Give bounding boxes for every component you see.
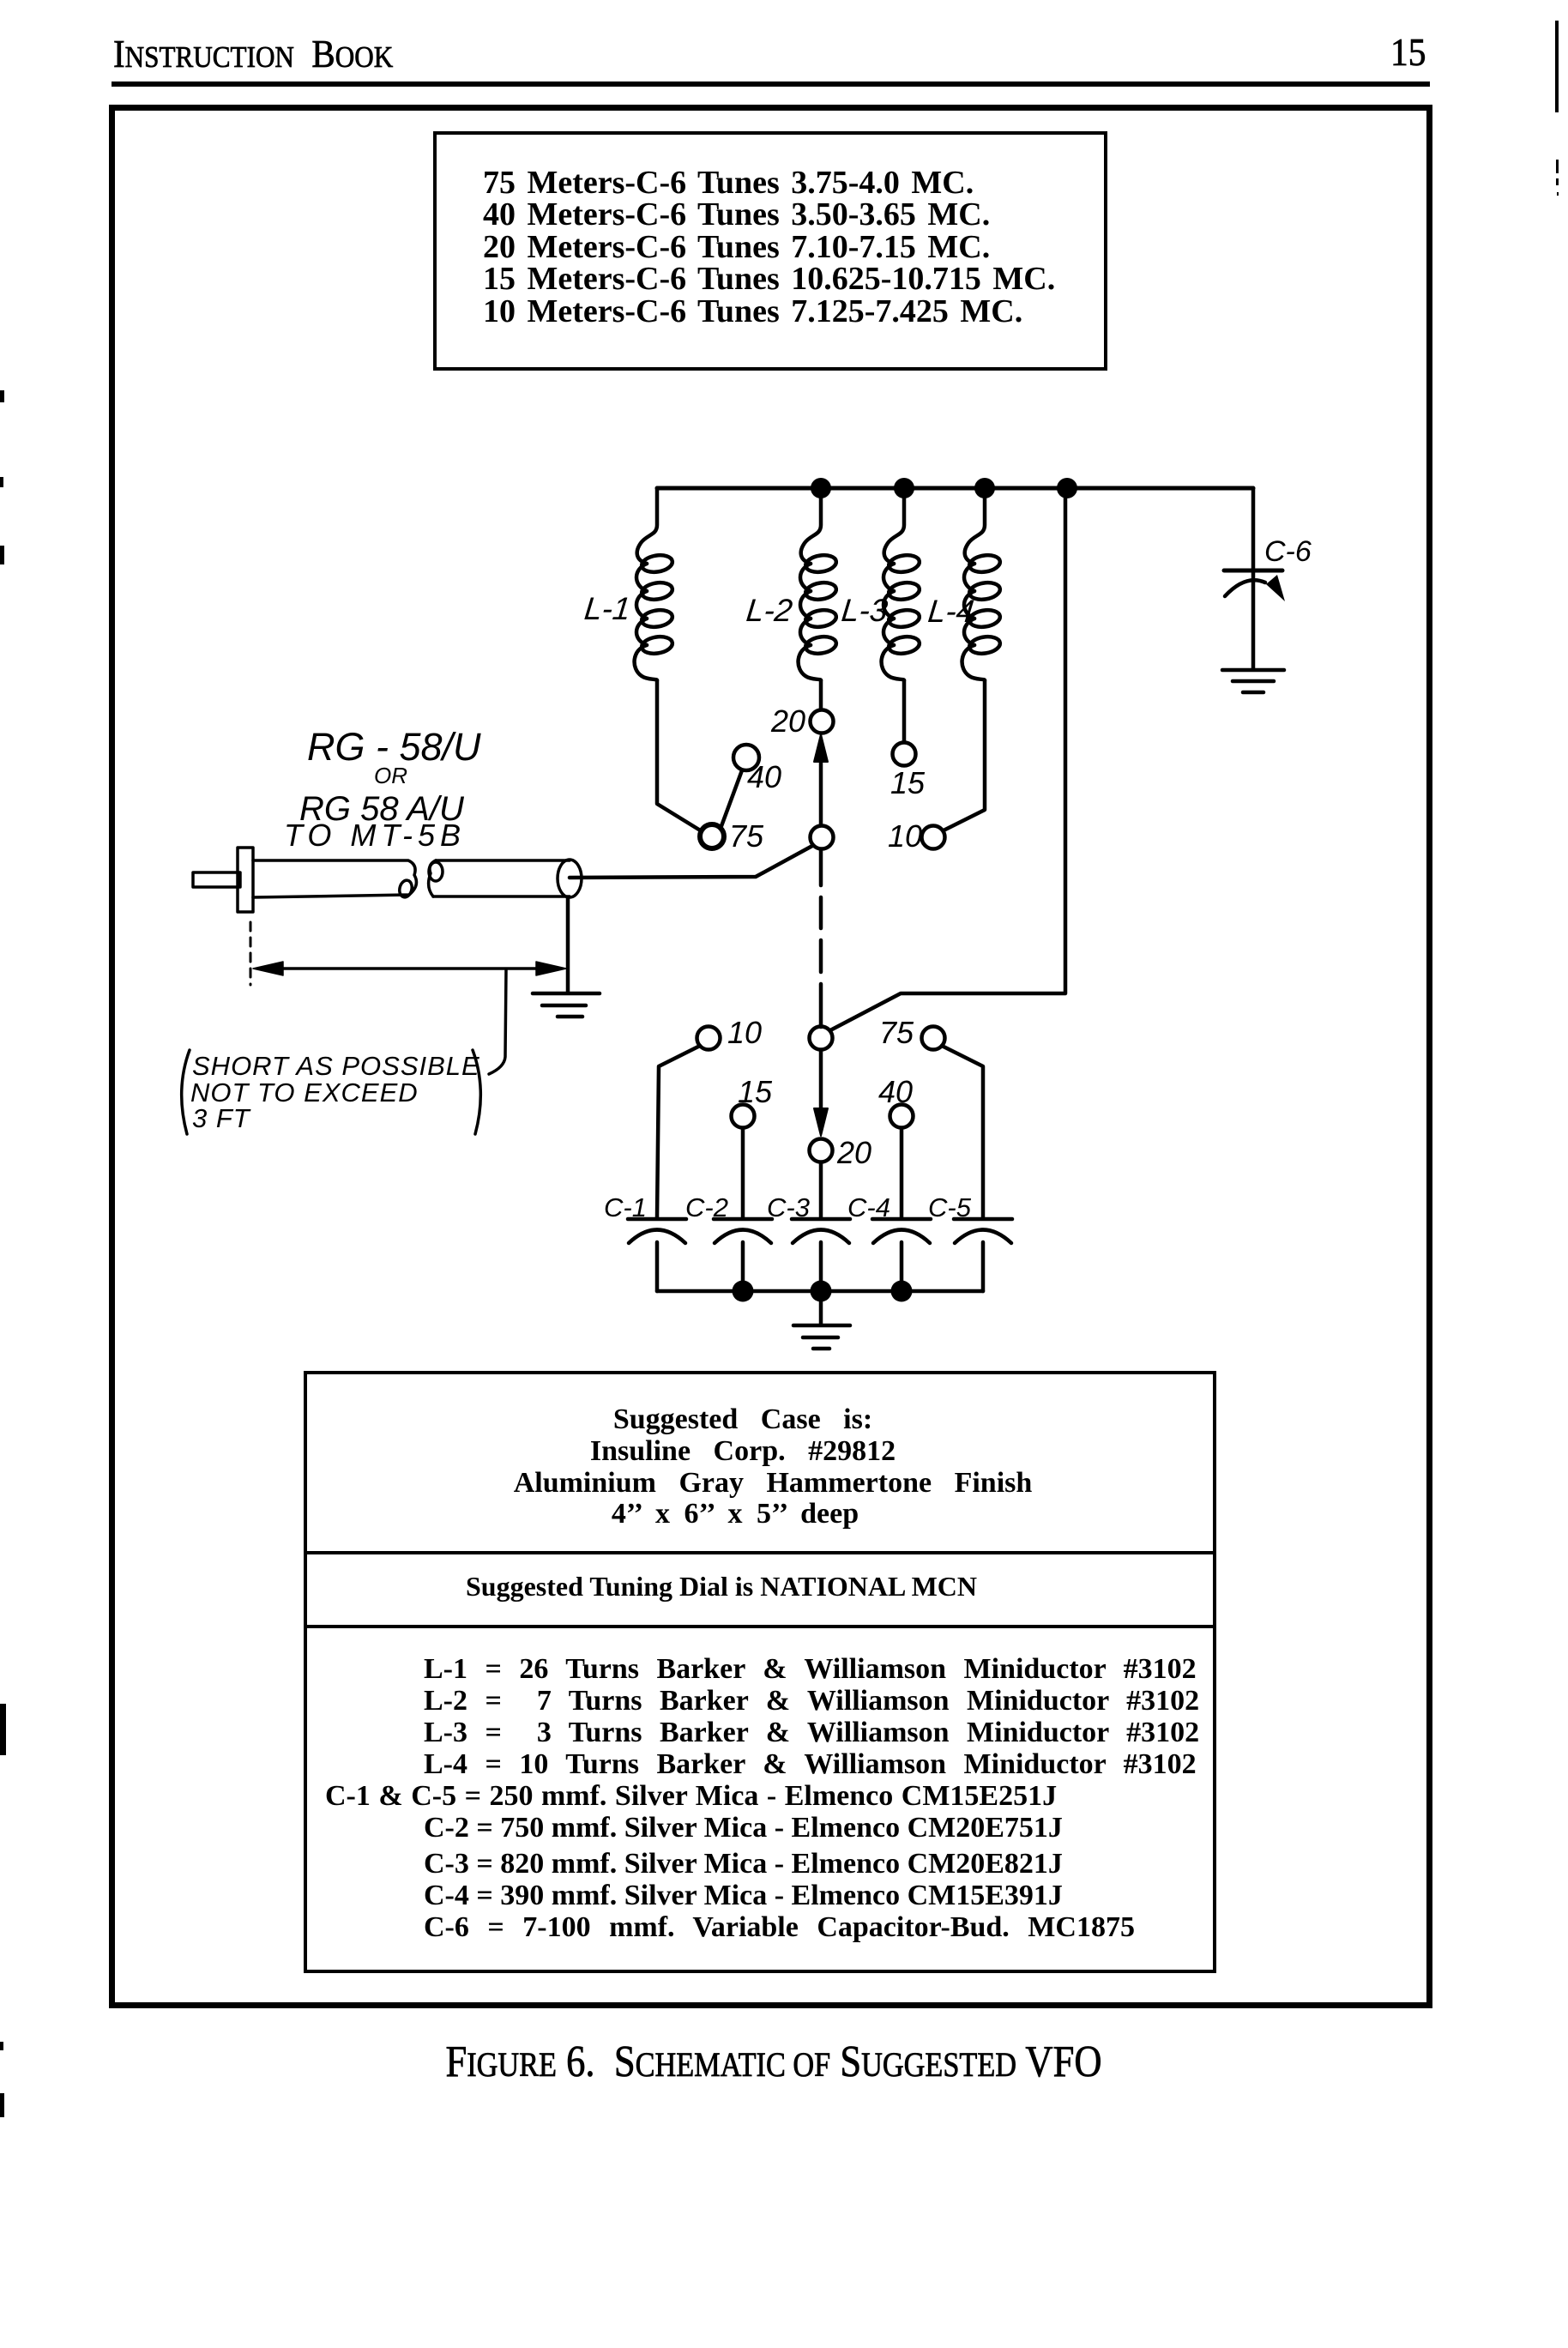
inductor L-1 [635, 488, 674, 680]
inductor L-3 [882, 488, 921, 680]
switch S1b contact 40 [890, 1105, 914, 1128]
svg-text:C-5: C-5 [928, 1192, 972, 1222]
capacitor C-4 [872, 1219, 931, 1291]
wire L-4 bottom to 10 contact [944, 680, 985, 830]
svg-text:3 FT: 3 FT [192, 1103, 251, 1133]
ground below capacitor bank [793, 1291, 850, 1349]
svg-text:10: 10 [727, 1015, 762, 1050]
svg-text:40: 40 [747, 759, 781, 794]
svg-text:75: 75 [729, 818, 764, 854]
node junction dot C-4 [891, 1281, 913, 1302]
svg-text:75: 75 [879, 1015, 914, 1050]
switch S1b common pole [810, 1027, 833, 1050]
wire dashed rotor link [819, 849, 823, 885]
switch S1a contact 10 [922, 826, 945, 849]
capacitor C-1 [628, 1219, 686, 1291]
coax connector pin [193, 872, 240, 887]
switch S1a contact 15 [893, 743, 916, 766]
ground below C-6 [1222, 670, 1284, 692]
coax body section 2 [429, 860, 582, 897]
note text short as possible [190, 1051, 480, 1133]
wire 20 contact to C-3 [819, 1162, 823, 1217]
capacitor C-6 variable [1224, 488, 1285, 668]
inductor L-4 [962, 488, 1002, 680]
svg-text:C-6: C-6 [1264, 535, 1312, 568]
switch S1b wiper arrow [819, 1050, 823, 1115]
switch S1a contact 40 [733, 745, 759, 770]
wire bottom bus [657, 1289, 983, 1294]
header: INSTRUCTION BOOK [113, 34, 393, 74]
wire L-3 bottom to 15 contact [902, 680, 907, 742]
note parentheses [182, 1050, 481, 1134]
node junction dot C-2 [733, 1281, 754, 1302]
capacitor C-5 [954, 1219, 1012, 1291]
wire S1b wiper to right bus [830, 488, 1065, 1030]
svg-text:15: 15 [890, 765, 926, 800]
switch S1a wiper arrow [819, 743, 823, 825]
svg-text:C-4: C-4 [847, 1192, 890, 1222]
svg-text:L-3: L-3 [840, 592, 890, 628]
svg-text:L-2: L-2 [745, 592, 794, 628]
node junction dot above L-2 [811, 478, 831, 498]
switch S1a contact 20 [811, 710, 834, 733]
wire 15 contact to C-2 [741, 1128, 745, 1217]
svg-text:OR: OR [374, 763, 407, 788]
node junction dot right bus [1057, 478, 1077, 498]
wire top bus [657, 486, 1253, 491]
ground below coax [533, 993, 600, 1017]
capacitor C-2 [714, 1219, 772, 1291]
wire 40 contact to C-4 [900, 1128, 904, 1217]
wire 75 contact to C-5 [942, 1046, 983, 1217]
svg-text:TO MT-5B: TO MT-5B [284, 818, 466, 853]
wire L-2 bottom to 20 contact [819, 680, 823, 709]
svg-text:10: 10 [888, 818, 922, 854]
coax connector flange [238, 848, 253, 912]
svg-text:20: 20 [770, 703, 805, 739]
svg-text:15: 15 [738, 1074, 773, 1109]
switch S1b contact 75 [922, 1027, 945, 1050]
node junction dot above L-4 [974, 478, 995, 498]
svg-text:C-3: C-3 [767, 1192, 810, 1222]
switch S1b contact 10 [697, 1027, 721, 1050]
wire coax shield to ground [566, 897, 570, 992]
page number 15 [1390, 33, 1426, 72]
switch S1b contact 20 [810, 1139, 833, 1162]
svg-text:SHORT AS POSSIBLE: SHORT AS POSSIBLE [192, 1051, 480, 1081]
svg-text:20: 20 [836, 1135, 871, 1170]
svg-text:L-1: L-1 [582, 590, 632, 626]
wire 40 contact to 75 contact [721, 770, 742, 826]
svg-text:C-2: C-2 [685, 1192, 728, 1222]
wire wiper to coax center [570, 846, 812, 878]
dimension dashed extension line [250, 922, 252, 985]
wire L-1 bottom to 75 contact [657, 680, 702, 831]
dimension line with arrows [253, 962, 566, 975]
leader line note [489, 970, 506, 1074]
node junction dot above L-3 [894, 478, 914, 498]
svg-text:C-1: C-1 [604, 1192, 647, 1222]
inductor L-2 [799, 488, 838, 680]
switch S1b contact 15 [732, 1105, 755, 1128]
switch S1a common pole [811, 826, 834, 849]
wire 10 contact to C-1 [657, 1046, 700, 1217]
node junction dot C-3 [811, 1281, 832, 1302]
svg-text:L-4: L-4 [926, 593, 976, 629]
svg-text:40: 40 [878, 1074, 913, 1109]
coax body section 1 [253, 860, 416, 898]
caption [102, 2040, 1446, 2085]
capacitor C-3 [792, 1219, 850, 1291]
switch S1a contact 75 [700, 824, 724, 848]
